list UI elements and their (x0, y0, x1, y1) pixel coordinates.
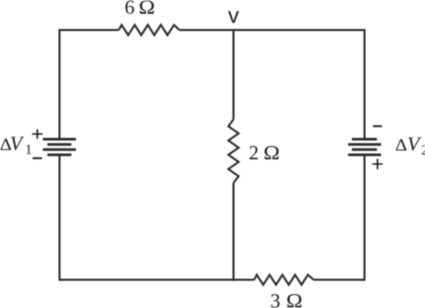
value label 6 ohm (R1) (126, 0, 154, 13)
battery V2 plate short (352, 148, 377, 151)
value label 3 ohm (R3) (271, 294, 301, 307)
battery V1 minus sign (33, 157, 42, 159)
resistor R1 6-ohm zigzag (119, 25, 180, 35)
battery V1 plate short (47, 143, 71, 146)
label delta-V1 source name (1, 137, 32, 154)
battery V2 minus sign (373, 125, 382, 127)
wire left upper (59, 29, 61, 139)
battery V1 plate long top (43, 138, 76, 141)
label delta-V2 source name (396, 137, 425, 154)
wire top-right segment (179, 29, 364, 31)
wire right upper (364, 29, 366, 139)
battery V2 plate long bottom (348, 154, 381, 157)
resistor R2 2-ohm zigzag (228, 119, 238, 183)
wire middle upper (233, 29, 235, 119)
value label 2 ohm (R2) (250, 146, 279, 159)
resistor R3 3-ohm zigzag (254, 275, 313, 285)
wire bottom-left segment (60, 279, 255, 281)
wire right lower (364, 155, 366, 281)
wire left lower (59, 155, 61, 281)
battery V2 plus sign (372, 159, 382, 169)
wire bottom-right segment (314, 279, 365, 281)
battery V1 plate long (43, 148, 76, 151)
battery V2 plate short top (352, 138, 377, 141)
battery V2 plate long (348, 143, 381, 146)
wire middle lower (233, 183, 235, 281)
node v label (228, 11, 239, 23)
battery V1 plate short bottom (47, 154, 71, 157)
battery V1 plus sign (32, 129, 43, 139)
wire top-left segment (60, 29, 119, 31)
